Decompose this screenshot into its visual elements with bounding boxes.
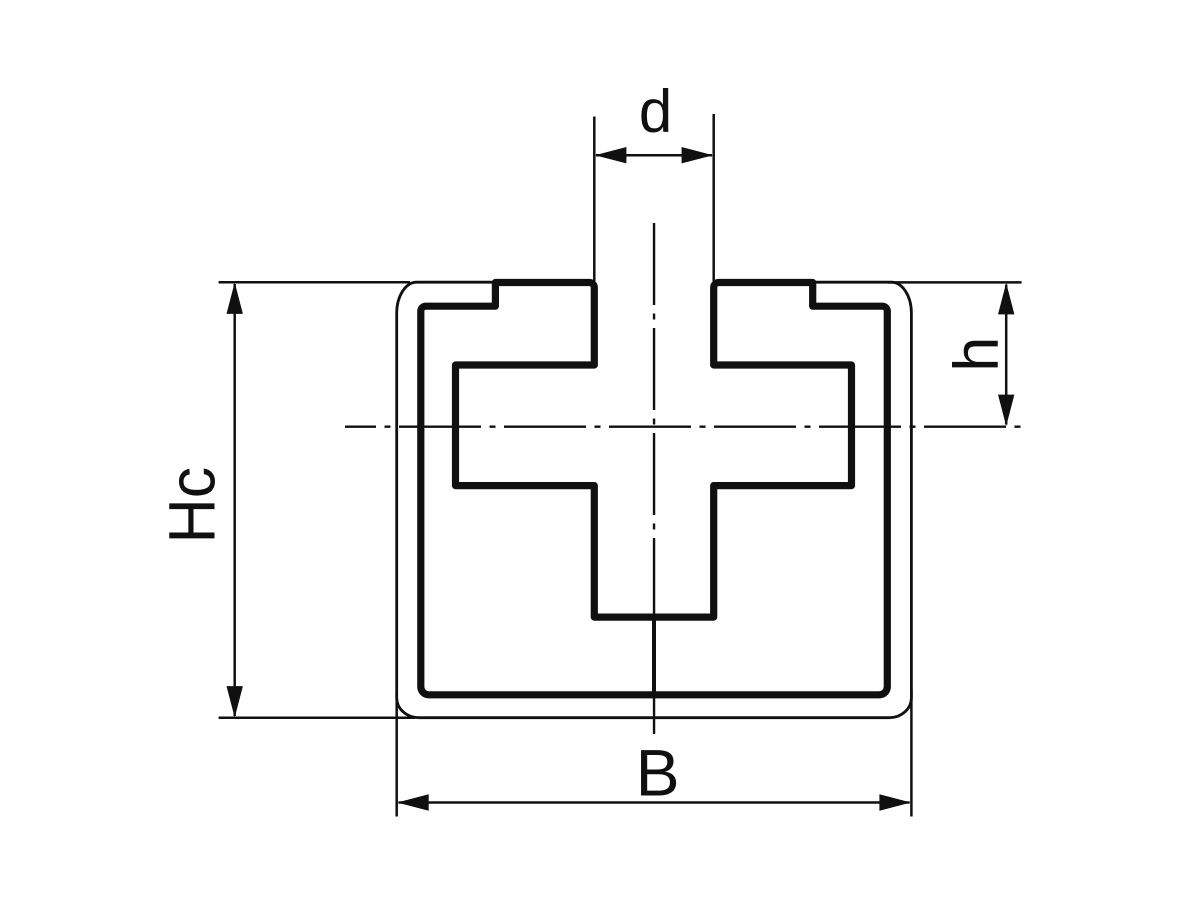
horizontal center line: [345, 426, 1022, 428]
dimension B extension line right: [910, 690, 913, 817]
vertical center line lower solid segment: [653, 694, 655, 734]
dimension d extension line left: [593, 117, 596, 282]
svg-text:B: B: [636, 735, 680, 809]
dimension h arrow top: [998, 283, 1014, 315]
chain channel outline (thick profile section): [421, 283, 888, 695]
svg-text:d: d: [639, 77, 672, 144]
dimension Hc extension line bottom: [219, 716, 415, 719]
dimension d extension line right: [712, 114, 715, 281]
svg-text:h: h: [942, 337, 1012, 372]
dimension B line: [399, 801, 910, 804]
dimension Hc arrow top: [227, 282, 243, 314]
bottom slit: [652, 618, 656, 695]
dimension d line: [596, 154, 712, 157]
dimension B arrow left: [397, 794, 429, 810]
dimension B arrow right: [879, 794, 911, 810]
dimension Hc extension line top: [219, 281, 410, 284]
vertical center line: [653, 223, 655, 619]
dimension h arrow bottom: [998, 395, 1014, 427]
dimension h line: [1005, 285, 1008, 425]
dimension B extension line left: [395, 690, 398, 817]
dimension d arrow right: [682, 147, 714, 163]
dimension d arrow left: [595, 147, 627, 163]
profile body outer outline (rounded): [397, 282, 912, 718]
dimension Hc arrow bottom: [227, 686, 243, 718]
svg-text:Hc: Hc: [155, 467, 229, 544]
dimension h extension line top: [888, 281, 1022, 284]
dimension Hc line: [233, 284, 236, 716]
